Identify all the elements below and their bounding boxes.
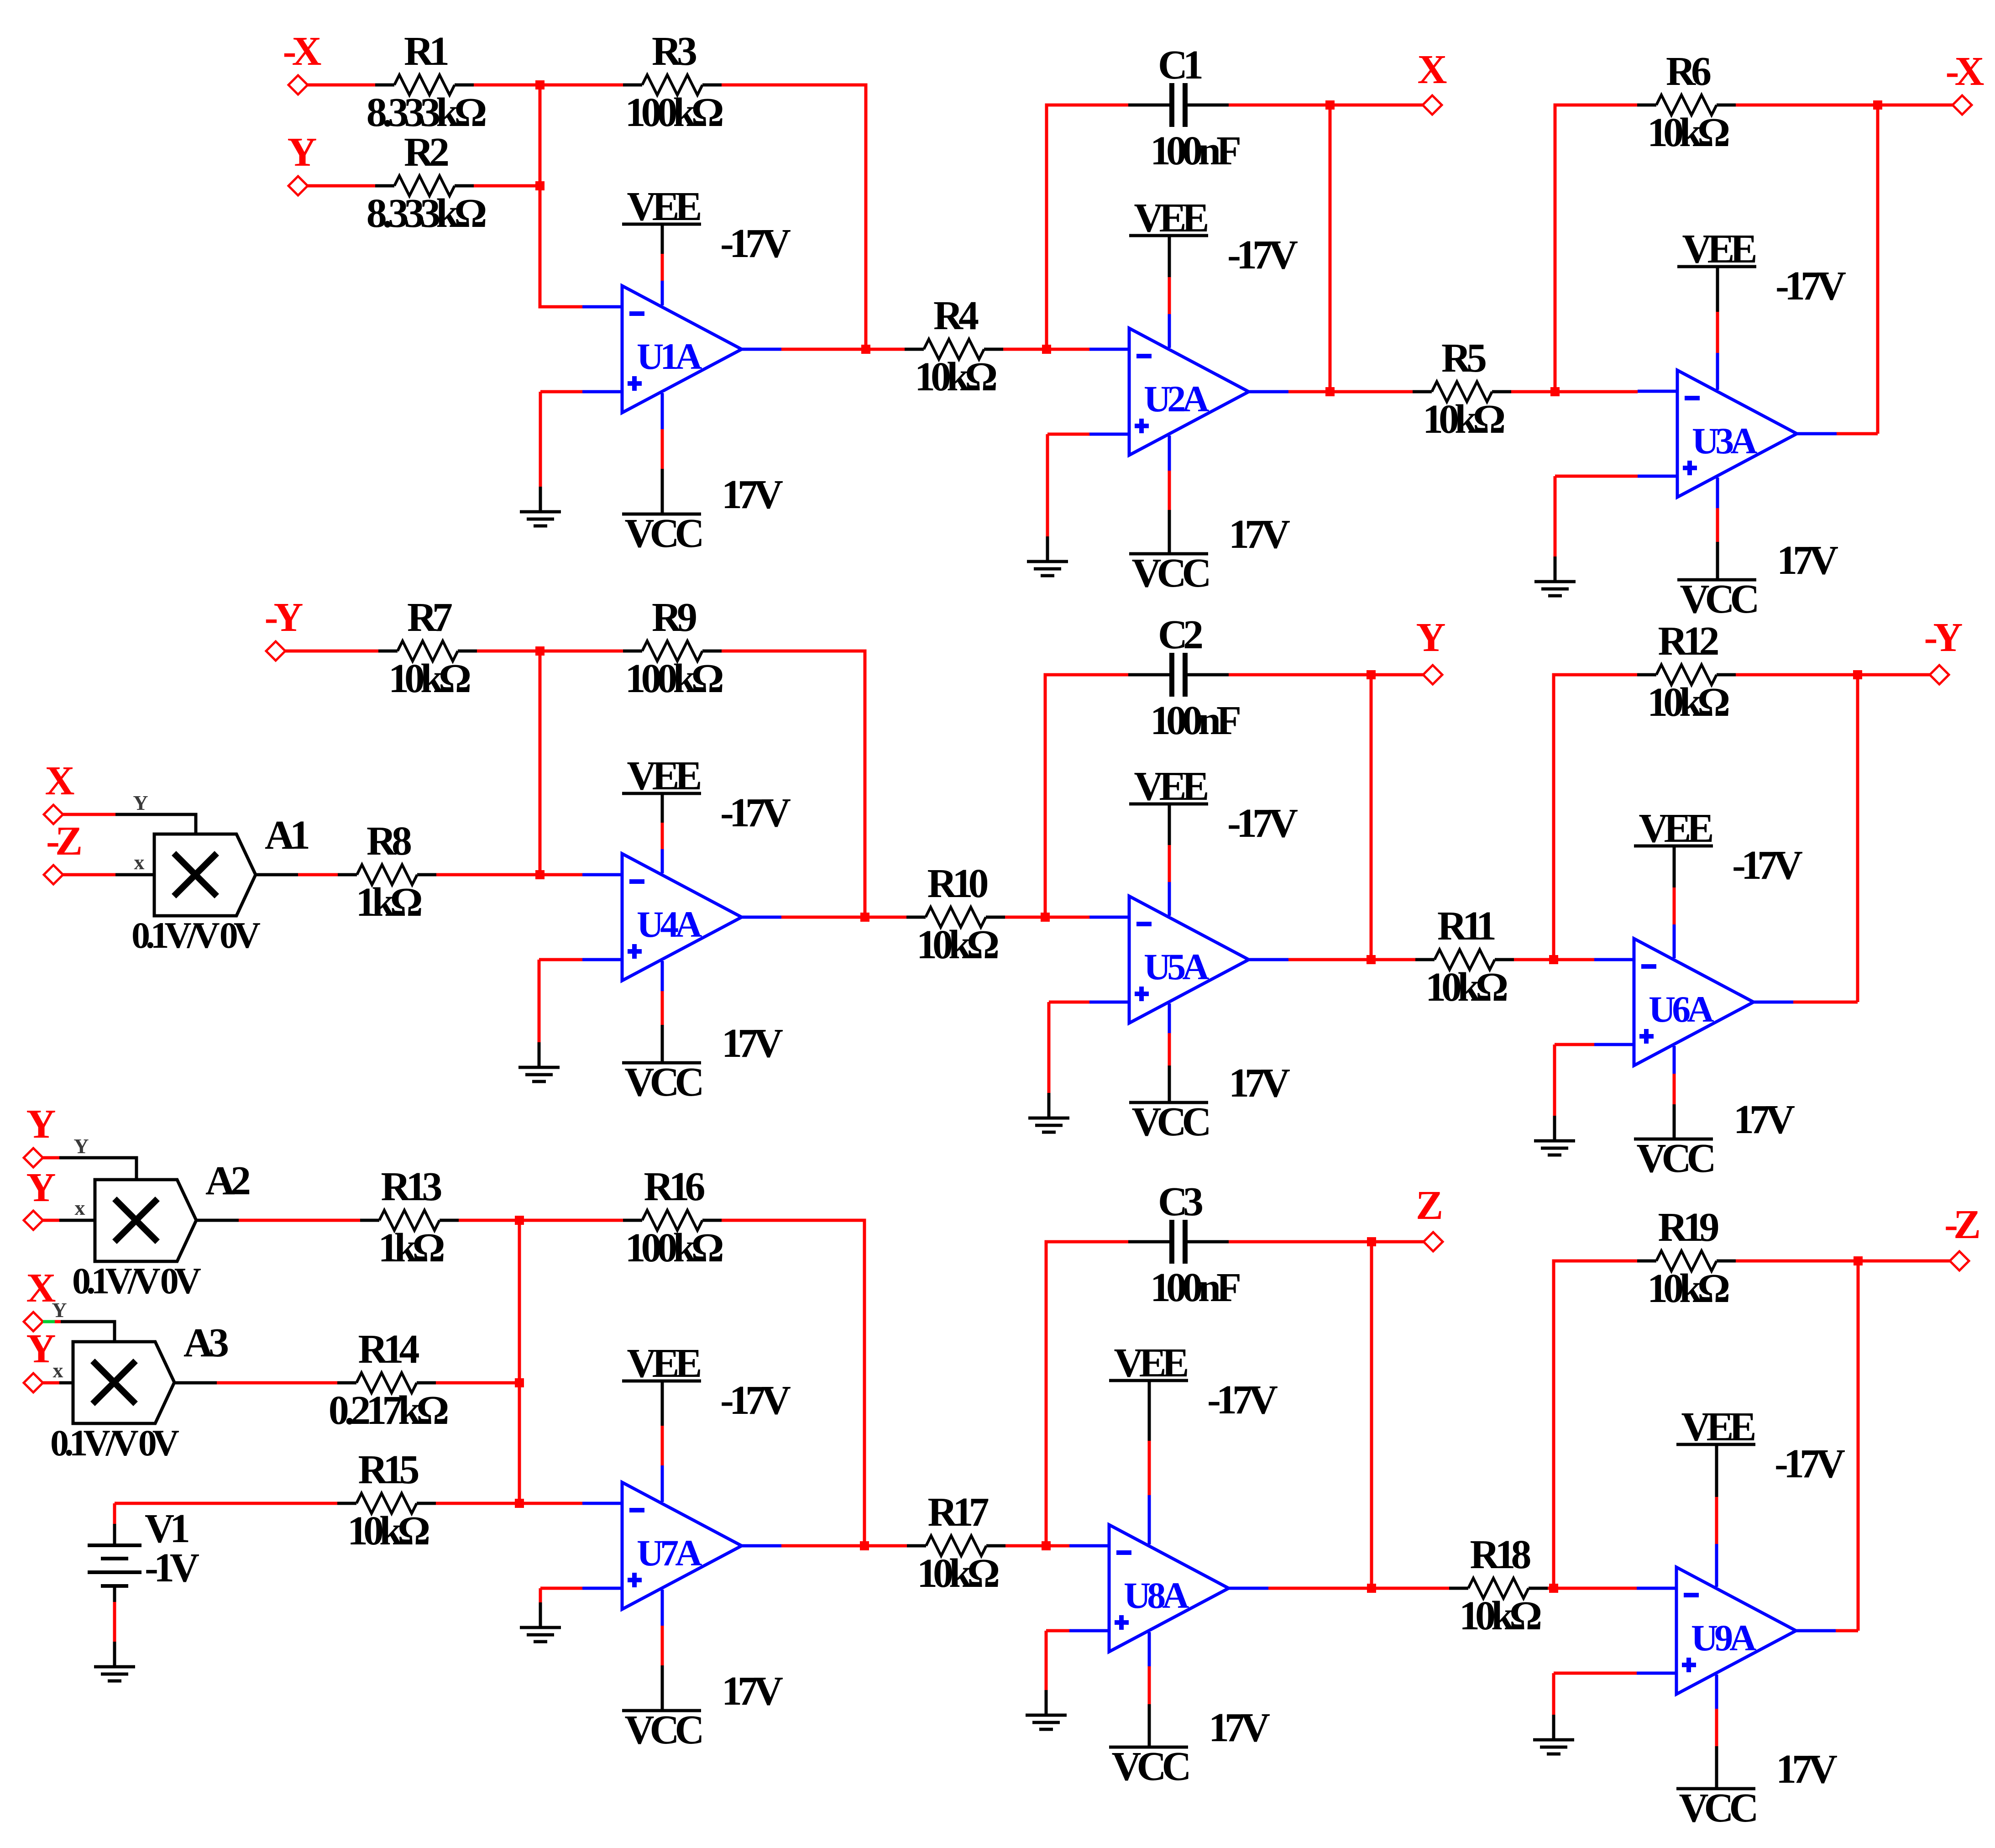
wire node I to R10 xyxy=(865,916,906,919)
lead A1 Y pin xyxy=(115,814,196,834)
svg-text:-17V: -17V xyxy=(720,790,791,835)
op-amp V- pin stub xyxy=(661,393,664,429)
resistor R19 xyxy=(1637,1251,1736,1271)
op-amp V+ pin stub xyxy=(1168,314,1171,348)
svg-text:A1: A1 xyxy=(265,813,309,858)
wire -Z connector to A1 x pin xyxy=(63,873,115,877)
svg-text:10kΩ: 10kΩ xyxy=(916,922,998,967)
node U junction (R19/-Z) xyxy=(1854,1256,1863,1265)
op-amp V+ pin stub xyxy=(1148,1495,1151,1544)
resistor R5 xyxy=(1413,382,1511,402)
multiplier A3 xyxy=(73,1342,174,1423)
op-amp V+ pin stub xyxy=(661,281,664,305)
battery V1 xyxy=(88,1524,141,1602)
svg-text:-Y: -Y xyxy=(1924,615,1963,660)
ground (V1) xyxy=(94,1642,135,1681)
power symbol VCC xyxy=(1676,1746,1755,1789)
wire R15 to node N drop 2 xyxy=(436,1502,519,1505)
wire node D to R5 xyxy=(1330,390,1413,394)
svg-text:VEE: VEE xyxy=(1639,806,1712,851)
lead A3 x pin xyxy=(59,1381,73,1385)
wire VEE to op-amp V+ pin xyxy=(661,1426,664,1465)
node X junction xyxy=(1325,100,1335,110)
wire Y connector to A3 x pin xyxy=(43,1381,59,1385)
op-amp V+ pin stub xyxy=(1168,882,1171,916)
wire U4A non-inverting input to ground xyxy=(538,960,541,1042)
svg-text:Y: Y xyxy=(52,1298,67,1322)
wire ground to U5A non-inverting input xyxy=(1049,1001,1089,1004)
multiplier A2 xyxy=(95,1180,196,1261)
connector X to A3 pin Y xyxy=(24,1312,43,1331)
wire U1A output to node B xyxy=(781,348,866,351)
wire U8A output to node S xyxy=(1268,1587,1372,1590)
svg-text:VCC: VCC xyxy=(1132,1099,1209,1144)
multiplier A1 xyxy=(154,834,256,916)
svg-text:10kΩ: 10kΩ xyxy=(915,354,996,399)
svg-text:-17V: -17V xyxy=(1207,1377,1278,1423)
op-amp V- pin stub xyxy=(1148,1632,1151,1666)
svg-text:10kΩ: 10kΩ xyxy=(388,656,470,701)
power symbol VCC xyxy=(622,469,701,514)
wire U1A non-inverting input to ground xyxy=(539,392,542,487)
wire R14 to node N drop xyxy=(436,1381,519,1385)
resistor R11 xyxy=(1415,950,1514,970)
svg-text:R4: R4 xyxy=(933,293,979,338)
wire R9 to U4A output node xyxy=(722,651,865,917)
wire node G to R9 xyxy=(540,650,623,653)
wire R7 to node G xyxy=(477,650,540,653)
wire U3A output to node F drop xyxy=(1837,432,1878,436)
wire Y connector to R2 xyxy=(308,184,375,188)
wire node Y to Y connector xyxy=(1371,673,1423,677)
op-amp U2A xyxy=(1089,328,1288,455)
svg-text:U9A: U9A xyxy=(1691,1617,1756,1659)
op-amp V- pin stub xyxy=(661,1590,664,1626)
svg-text:VCC: VCC xyxy=(625,1707,702,1753)
svg-text:VEE: VEE xyxy=(1134,195,1207,241)
connector -X input xyxy=(288,75,308,94)
wire ground to U3A non-inverting input xyxy=(1555,475,1638,478)
wire node N to R16 xyxy=(519,1219,623,1222)
svg-text:VCC: VCC xyxy=(1680,577,1757,622)
wire node C up to C1 xyxy=(1047,105,1128,349)
wire A2 output to R13 xyxy=(239,1219,360,1222)
power symbol VCC xyxy=(622,1665,701,1711)
ground (U4A +) xyxy=(518,1042,560,1081)
wire R8 to node G drop xyxy=(436,873,540,877)
wire op-amp V- pin to VCC xyxy=(661,429,664,469)
node L junction (R11/R12) xyxy=(1549,955,1558,964)
wire node J to U5A inverting input xyxy=(1045,916,1089,919)
ground (U3A +) xyxy=(1534,556,1576,596)
wire op-amp V- pin to VCC xyxy=(1673,1074,1676,1104)
wire R2 to node A xyxy=(474,184,540,188)
svg-text:10kΩ: 10kΩ xyxy=(1425,965,1507,1010)
svg-text:VEE: VEE xyxy=(1682,226,1755,272)
svg-text:A3: A3 xyxy=(183,1320,228,1365)
svg-text:-17V: -17V xyxy=(1732,843,1802,888)
svg-text:10kΩ: 10kΩ xyxy=(347,1508,429,1554)
svg-text:VCC: VCC xyxy=(1132,551,1209,596)
svg-text:-17V: -17V xyxy=(720,221,791,266)
svg-text:100kΩ: 100kΩ xyxy=(625,656,723,701)
svg-text:C3: C3 xyxy=(1158,1179,1202,1224)
wire ground to U2A non-inverting input xyxy=(1047,433,1089,436)
svg-text:R7: R7 xyxy=(407,595,452,640)
svg-text:X: X xyxy=(45,758,74,803)
op-amp U8A xyxy=(1069,1525,1268,1652)
op-amp V- pin stub xyxy=(1673,1046,1676,1074)
lead V1 ground xyxy=(113,1648,116,1667)
resistor R18 xyxy=(1449,1578,1548,1598)
ground (U6A +) xyxy=(1534,1116,1575,1155)
wire ground to U1A non-inverting input xyxy=(540,390,582,394)
svg-text:U4A: U4A xyxy=(637,903,702,945)
svg-text:X: X xyxy=(26,1265,56,1311)
power symbol VEE xyxy=(622,793,701,823)
wire node A to R3 xyxy=(540,84,623,87)
connector -X output xyxy=(1953,95,1972,115)
wire node X to X connector xyxy=(1330,104,1423,107)
node H junction (R8 joins) xyxy=(535,870,545,879)
svg-text:-17V: -17V xyxy=(1775,1441,1845,1486)
resistor R14 xyxy=(337,1373,436,1393)
svg-text:A2: A2 xyxy=(205,1158,250,1203)
wire VEE to op-amp V+ pin xyxy=(1168,845,1171,882)
connector -Z output xyxy=(1950,1251,1969,1270)
power symbol VEE xyxy=(1634,846,1713,887)
ground (U1A +) xyxy=(520,487,561,526)
svg-text:17V: 17V xyxy=(722,1669,783,1714)
wire node R up to C3 xyxy=(1046,1242,1128,1546)
wire node X down to U2A output xyxy=(1329,105,1332,392)
svg-text:17V: 17V xyxy=(1229,1060,1290,1106)
wire U6A output to node M drop xyxy=(1793,1001,1858,1004)
op-amp U9A xyxy=(1637,1567,1836,1694)
wire R4 to node C xyxy=(1003,348,1047,351)
wire node F down to U3A output xyxy=(1876,105,1880,434)
svg-text:VCC: VCC xyxy=(1679,1785,1756,1831)
svg-text:-Z: -Z xyxy=(46,819,81,864)
svg-text:8.333kΩ: 8.333kΩ xyxy=(367,90,486,135)
wire V1 to R15 xyxy=(115,1502,337,1505)
svg-text:X: X xyxy=(1418,47,1447,92)
wire op-amp V- pin to VCC xyxy=(661,991,664,1025)
wire R16 to U7A output node xyxy=(722,1220,864,1546)
node D junction (U2A out) xyxy=(1325,387,1335,396)
svg-text:VCC: VCC xyxy=(625,1060,702,1105)
wire U9A output to node U drop xyxy=(1836,1629,1858,1633)
wire ground to U4A non-inverting input xyxy=(539,958,582,961)
wire X connector to A3 Y pin (green) xyxy=(43,1320,55,1323)
svg-text:17V: 17V xyxy=(1777,538,1838,583)
svg-text:100nF: 100nF xyxy=(1150,128,1240,173)
wire node C to U2A inverting input xyxy=(1047,348,1089,351)
node Z junction xyxy=(1367,1237,1376,1246)
power symbol VCC xyxy=(622,1025,701,1063)
power symbol VEE xyxy=(1129,804,1208,845)
wire -X connector to R1 xyxy=(308,84,375,87)
op-amp V- pin stub xyxy=(1715,1675,1718,1709)
svg-text:17V: 17V xyxy=(722,1021,783,1066)
wire C2 to node Y xyxy=(1229,673,1371,677)
wire VEE to op-amp V+ pin xyxy=(1715,1497,1718,1544)
power symbol VCC xyxy=(1129,510,1208,554)
op-amp U4A xyxy=(582,854,781,981)
connector Y output xyxy=(1423,665,1442,684)
svg-text:R15: R15 xyxy=(358,1447,419,1492)
wire op-amp V- pin to VCC xyxy=(1716,508,1719,542)
svg-text:1kΩ: 1kΩ xyxy=(356,880,421,925)
svg-text:1kΩ: 1kΩ xyxy=(378,1225,444,1270)
wire -Y connector to R7 xyxy=(285,650,378,653)
resistor R15 xyxy=(337,1493,436,1513)
svg-text:R2: R2 xyxy=(404,130,448,175)
node K junction (U5A out) xyxy=(1367,955,1376,964)
svg-text:R11: R11 xyxy=(1437,903,1495,949)
svg-text:17V: 17V xyxy=(1733,1097,1795,1142)
wire X connector to A1 Y pin xyxy=(63,813,115,816)
op-amp V+ pin stub xyxy=(1673,924,1676,958)
node R junction (R17/C3) xyxy=(1042,1541,1051,1550)
connector -Y input xyxy=(266,641,285,661)
svg-text:-X: -X xyxy=(1946,49,1984,94)
svg-text:R16: R16 xyxy=(644,1164,705,1209)
resistor R10 xyxy=(906,907,1005,927)
power symbol VEE xyxy=(1676,1444,1755,1497)
op-amp V+ pin stub xyxy=(1716,353,1719,390)
op-amp V- pin stub xyxy=(1716,478,1719,508)
power symbol VEE xyxy=(1109,1381,1188,1441)
connector Y to A2 pin Y xyxy=(24,1148,43,1167)
resistor R4 xyxy=(905,339,1003,359)
wire R3 to U1A output node xyxy=(722,85,866,349)
wire R5 to node E xyxy=(1511,390,1555,394)
op-amp U1A xyxy=(582,286,781,413)
capacitor C1 xyxy=(1128,83,1229,127)
wire node J up to C2 xyxy=(1045,675,1128,917)
lead A1 output xyxy=(256,873,298,877)
node C junction (R4/C1) xyxy=(1042,345,1051,354)
svg-text:VEE: VEE xyxy=(1681,1404,1754,1449)
svg-text:0.1V/V 0V: 0.1V/V 0V xyxy=(72,1260,201,1302)
wire node U to -Z connector xyxy=(1858,1260,1950,1263)
wire R17 to node R xyxy=(1005,1544,1046,1548)
svg-text:U6A: U6A xyxy=(1649,988,1714,1030)
op-amp U5A xyxy=(1089,896,1288,1023)
op-amp U3A xyxy=(1638,370,1837,497)
svg-text:100nF: 100nF xyxy=(1150,698,1240,743)
svg-text:R3: R3 xyxy=(652,29,696,74)
wire VEE to op-amp V+ pin xyxy=(1716,312,1719,353)
svg-text:Y: Y xyxy=(26,1102,56,1147)
wire V1 bottom to ground xyxy=(113,1602,116,1648)
wire A1 output to R8 xyxy=(298,873,338,877)
connector Y to A3 pin x xyxy=(24,1373,43,1392)
wire U5A output to node K xyxy=(1288,958,1371,961)
wire node T up to R19 xyxy=(1554,1261,1637,1588)
ground (U2A +) xyxy=(1027,536,1068,576)
lead A3 output xyxy=(174,1381,217,1385)
wire node M to -Y connector xyxy=(1858,673,1930,677)
wire node T to U9A inverting input xyxy=(1554,1587,1637,1590)
wire node G to U4A inverting input xyxy=(540,651,582,875)
wire node A to U1A inverting input xyxy=(540,85,582,307)
node J junction (R10/C2) xyxy=(1041,913,1050,922)
node I junction (U4A out) xyxy=(860,913,869,922)
wire ground to U9A non-inverting input xyxy=(1554,1672,1637,1675)
lead A1 x pin xyxy=(115,873,154,877)
connector X output xyxy=(1423,95,1442,115)
svg-text:Y: Y xyxy=(288,130,317,175)
svg-text:10kΩ: 10kΩ xyxy=(1423,397,1504,442)
wire C1 to node X xyxy=(1229,104,1330,107)
wire op-amp V- pin to VCC xyxy=(1715,1709,1718,1746)
ground (U8A +) xyxy=(1026,1690,1067,1729)
resistor R8 xyxy=(338,865,436,885)
wire op-amp V- pin to VCC xyxy=(1168,471,1171,510)
connector -Z to A1 xyxy=(44,865,63,884)
wire U4A output to node I xyxy=(781,916,865,919)
power symbol VCC xyxy=(1677,542,1756,580)
wire R18 to node T xyxy=(1548,1587,1554,1590)
wire VEE to op-amp V+ pin xyxy=(1673,887,1676,924)
capacitor C3 xyxy=(1128,1220,1229,1264)
power symbol VCC xyxy=(1129,1066,1208,1102)
node M junction (R12/-Y) xyxy=(1853,670,1862,679)
node G junction (R7/R9) xyxy=(535,646,545,656)
op-amp V+ pin stub xyxy=(661,1465,664,1502)
svg-text:-1V: -1V xyxy=(145,1545,199,1591)
svg-text:-17V: -17V xyxy=(1227,801,1298,846)
wire U3A non-inverting input to ground xyxy=(1554,476,1557,556)
svg-text:Y: Y xyxy=(26,1165,56,1210)
svg-text:17V: 17V xyxy=(722,472,783,517)
ground (U9A +) xyxy=(1533,1715,1574,1754)
wire U2A non-inverting input to ground xyxy=(1046,434,1049,536)
op-amp U6A xyxy=(1594,939,1793,1066)
wire op-amp V- pin to VCC xyxy=(661,1626,664,1665)
svg-text:VCC: VCC xyxy=(1112,1744,1189,1789)
node S junction (U8A out) xyxy=(1367,1584,1376,1593)
node Y junction xyxy=(1367,670,1376,679)
wire node L to U6A inverting input xyxy=(1554,958,1594,961)
wire node N to U7A inverting input xyxy=(519,1220,582,1503)
power symbol VEE xyxy=(1129,236,1208,277)
wire Y connector to A2 x pin xyxy=(43,1219,59,1222)
resistor R12 xyxy=(1637,665,1736,685)
ground (U5A +) xyxy=(1028,1093,1069,1132)
wire ground to U8A non-inverting input xyxy=(1046,1629,1069,1633)
svg-text:R5: R5 xyxy=(1441,336,1486,381)
svg-text:-17V: -17V xyxy=(1227,232,1298,278)
svg-text:Y: Y xyxy=(26,1326,56,1371)
wire R6 to node F xyxy=(1736,104,1878,107)
svg-text:0.217kΩ: 0.217kΩ xyxy=(329,1388,448,1433)
resistor R3 xyxy=(623,75,722,95)
node T junction (R18/R19) xyxy=(1549,1584,1558,1593)
svg-text:-X: -X xyxy=(283,29,321,74)
svg-text:C1: C1 xyxy=(1158,42,1202,88)
svg-text:Y: Y xyxy=(1416,615,1445,660)
wire op-amp V- pin to VCC xyxy=(1148,1666,1151,1704)
svg-text:R12: R12 xyxy=(1658,619,1718,664)
node O junction (R14 joins) xyxy=(515,1378,524,1387)
wire VEE to op-amp V+ pin xyxy=(1148,1441,1151,1495)
svg-text:R6: R6 xyxy=(1666,49,1711,94)
wire node K to R11 xyxy=(1371,958,1415,961)
svg-text:R14: R14 xyxy=(358,1327,419,1372)
wire U2A output to node X drop xyxy=(1288,390,1330,394)
resistor R9 xyxy=(623,641,722,661)
svg-text:-17V: -17V xyxy=(1775,263,1846,309)
svg-text:U7A: U7A xyxy=(637,1532,702,1574)
op-amp V- pin stub xyxy=(1168,1003,1171,1033)
svg-text:Y: Y xyxy=(73,1134,89,1158)
wire node S to R18 xyxy=(1372,1587,1449,1590)
svg-text:VEE: VEE xyxy=(1114,1340,1187,1386)
svg-text:U1A: U1A xyxy=(637,336,702,377)
node A junction (R2 tap) xyxy=(535,181,545,190)
wire VEE to op-amp V+ pin xyxy=(1168,277,1171,314)
node N junction (R13/R16) xyxy=(515,1216,524,1225)
wire node R to U8A inverting input xyxy=(1046,1544,1069,1548)
lead A2 output xyxy=(196,1219,239,1222)
wire U8A non-inverting input to ground xyxy=(1045,1631,1048,1690)
connector Z output xyxy=(1424,1232,1443,1251)
svg-text:100nF: 100nF xyxy=(1150,1265,1240,1310)
ground (U7A +) xyxy=(520,1602,561,1642)
op-amp V+ pin stub xyxy=(1715,1544,1718,1587)
resistor R6 xyxy=(1637,95,1736,115)
connector Y input xyxy=(288,176,308,195)
op-amp V- pin stub xyxy=(661,961,664,991)
svg-text:x: x xyxy=(53,1359,63,1382)
wire A3 output to R14 xyxy=(217,1381,337,1385)
wire node Q to R17 xyxy=(864,1544,907,1548)
resistor R16 xyxy=(623,1210,722,1230)
wire ground to U7A non-inverting input xyxy=(540,1587,582,1590)
svg-text:R13: R13 xyxy=(381,1164,441,1209)
wire R12 to node M xyxy=(1736,673,1858,677)
lead A2 Y pin xyxy=(59,1158,136,1180)
svg-text:8.333kΩ: 8.333kΩ xyxy=(367,191,486,236)
wire R1 to node A xyxy=(474,84,540,87)
svg-text:x: x xyxy=(75,1196,85,1219)
wire R19 to node U xyxy=(1736,1260,1858,1263)
svg-text:VEE: VEE xyxy=(1134,764,1207,809)
connector -Y output xyxy=(1930,665,1949,684)
svg-text:10kΩ: 10kΩ xyxy=(1459,1593,1541,1638)
power symbol VEE xyxy=(622,1381,701,1426)
svg-text:VCC: VCC xyxy=(625,511,702,556)
wire node Z down to U8A output xyxy=(1370,1242,1373,1588)
svg-text:R9: R9 xyxy=(652,595,696,640)
op-amp U7A xyxy=(582,1482,781,1609)
wire R13 to node N xyxy=(459,1219,519,1222)
connector Y to A2 pin x xyxy=(24,1211,43,1230)
node E junction (R5/R6) xyxy=(1550,387,1560,396)
svg-text:U8A: U8A xyxy=(1124,1575,1189,1616)
svg-text:17V: 17V xyxy=(1229,512,1290,557)
svg-text:R17: R17 xyxy=(928,1490,989,1535)
wire Y connector to A2 Y pin xyxy=(43,1156,59,1160)
wire U5A non-inverting input to ground xyxy=(1047,1002,1051,1093)
wire U6A non-inverting input to ground xyxy=(1553,1045,1556,1116)
resistor R1 xyxy=(375,75,474,95)
svg-text:U5A: U5A xyxy=(1144,946,1209,987)
connector X to A1 xyxy=(44,805,63,824)
